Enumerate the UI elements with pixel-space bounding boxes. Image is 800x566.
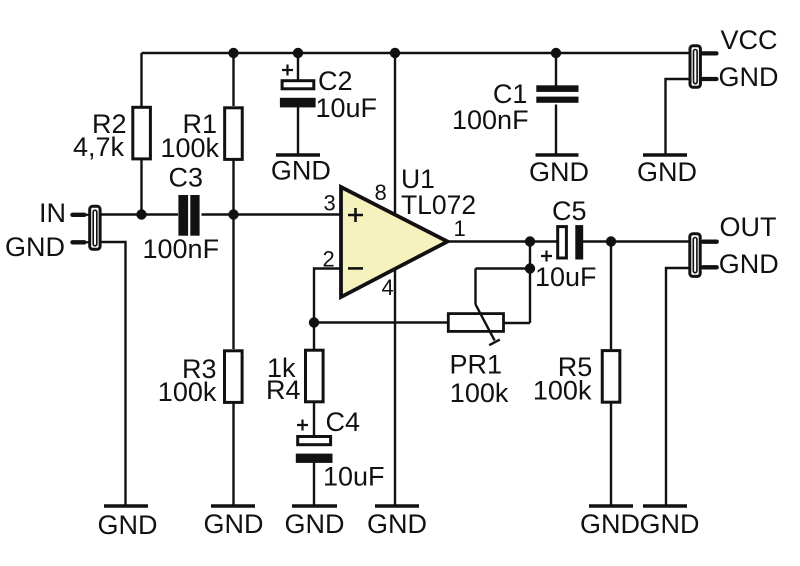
wire R3 bottom to ground [232,403,234,505]
svg-text:GND: GND [5,232,65,262]
wire top supply rail [142,52,690,54]
capacitor C5 [541,225,583,261]
svg-text:3: 3 [324,191,336,216]
connector J3 OUT [690,234,717,277]
junction node at C1 top [551,48,561,58]
resistor R5 [602,351,620,403]
capacitor C1 [536,85,578,102]
svg-text:GND: GND [204,509,264,539]
wire wiper node horizontal [476,267,531,269]
wire output node to R5 top [610,242,612,350]
svg-text:IN: IN [39,198,66,228]
junction node feedback [309,317,319,327]
svg-text:100k: 100k [533,376,592,406]
svg-text:GND: GND [719,62,779,92]
svg-text:10uF: 10uF [323,462,385,492]
wire C1 bottom to ground [555,105,557,154]
connector J2 VCC [690,46,716,88]
wire C1 top [555,53,557,87]
svg-text:4: 4 [382,275,394,300]
wire C2 top [297,53,299,82]
svg-text:4,7k: 4,7k [73,132,125,162]
wire C2 bottom to ground [297,107,299,154]
junction node R5 top [606,236,616,246]
svg-text:100nF: 100nF [452,105,529,135]
svg-text:GND: GND [285,509,345,539]
svg-text:GND: GND [637,157,697,187]
wire VCC connector GND pin to ground [666,79,690,154]
svg-text:GND: GND [271,156,331,186]
resistor R3 [225,351,243,403]
junction node output [525,236,535,246]
svg-text:GND: GND [367,509,427,539]
svg-text:C3: C3 [169,163,204,193]
wire feedback node to PR1 left [314,321,448,323]
svg-text:OUT: OUT [720,212,777,242]
wire pin 2 to feedback node [314,269,341,323]
wire output node down to PR1 right [529,242,531,324]
svg-text:GND: GND [580,509,640,539]
svg-text:1: 1 [454,216,466,241]
wire R2 top [140,53,142,106]
junction node at R2 bottom [136,209,146,219]
wire PR1 right stub [504,322,531,324]
svg-text:PR1: PR1 [450,350,503,380]
svg-text:GND: GND [640,509,700,539]
junction node at R1 bottom [228,209,238,219]
wire wiper vertical [474,269,476,305]
svg-text:2: 2 [323,247,335,272]
wire pin 8 to rail [394,53,396,215]
svg-text:R4: R4 [266,375,301,405]
svg-text:100nF: 100nF [143,234,220,264]
wire R1 bottom [232,160,234,215]
wire R4 bottom to C4 [313,403,315,437]
ground under pin 4 [367,506,427,539]
wire feedback node to R4 top [313,323,315,350]
junction node at pin 8 [390,48,400,58]
wire R5 bottom to ground [610,403,612,505]
svg-text:C4: C4 [326,407,361,437]
resistor R4 [306,350,324,402]
svg-text:C2: C2 [318,66,353,96]
svg-text:C5: C5 [552,196,587,226]
svg-text:VCC: VCC [721,25,778,55]
ground under R3 [204,506,264,539]
svg-text:100k: 100k [158,377,217,407]
ground under VCC connector [637,155,697,187]
junction node at C2 top [293,48,303,58]
ground under R5 [580,506,640,539]
capacitor C3 [178,195,199,236]
svg-text:100k: 100k [450,378,509,408]
wire C4 bottom to ground [313,462,315,505]
ground under C4 [285,506,345,539]
wire node to R3 top [232,215,234,350]
wire input left segment [100,213,178,215]
junction node at R1 top [228,48,238,58]
wire OUT connector GND pin to ground [666,268,690,505]
svg-text:GND: GND [98,510,158,540]
resistor R2 [133,107,151,159]
ground under C1 [529,155,589,187]
wire R2 bottom [140,160,142,215]
svg-text:8: 8 [375,180,387,205]
wire R1 top [232,53,234,106]
wire IN connector GND pin to ground [100,242,126,505]
junction node wiper [525,263,535,273]
wire C5 to OUT connector [583,240,690,242]
svg-text:10uF: 10uF [535,262,597,292]
wire pin 4 to ground [394,267,396,505]
op-amp U1 [341,187,448,297]
potentiometer PR1 [448,304,503,345]
svg-text:GND: GND [529,157,589,187]
wire output pin 1 to C5 [447,240,557,242]
svg-text:10uF: 10uF [316,93,378,123]
connector J1 IN [72,206,100,249]
svg-text:GND: GND [719,249,779,279]
capacitor C4 [296,420,333,463]
svg-text:100k: 100k [161,133,220,163]
ground under OUT connector [640,506,700,539]
ground under IN connector [98,506,158,540]
resistor R1 [225,108,243,160]
wire input right segment to pin 3 [202,213,342,215]
ground under C2 [271,155,331,186]
capacitor C2 [280,65,316,108]
